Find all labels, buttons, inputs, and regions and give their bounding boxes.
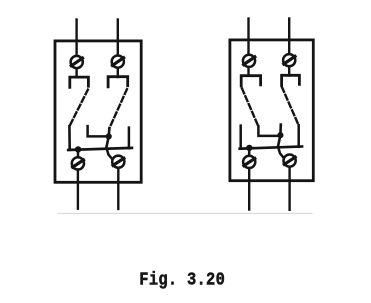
fixed contact top-left S1	[70, 77, 89, 87]
stub to bottom-left terminal S2	[248, 148, 251, 156]
fixed contact top-right S1	[108, 77, 128, 87]
blade 1 lower solid S1	[68, 126, 71, 150]
terminal screw top-right S1	[112, 56, 124, 68]
stub to bottom-right terminal S1	[107, 148, 113, 159]
blade 2 lower solid S1	[106, 128, 109, 148]
common contact bracket S1	[88, 126, 109, 136]
terminal screw bottom-left S2	[243, 156, 255, 168]
wire top-left S1	[75, 20, 77, 78]
wire top-right S2	[288, 19, 290, 76]
terminal screw top-left S2	[243, 55, 255, 67]
enclosure box S1	[55, 41, 141, 182]
common contact bracket S2	[258, 126, 280, 136]
terminal screw top-right S2	[283, 54, 295, 66]
fixed contact top-left S2	[241, 76, 260, 86]
wire bottom-right S2	[288, 167, 290, 210]
stub to bottom-right terminal S2	[278, 147, 284, 158]
bar right post S1	[128, 128, 131, 149]
blade 2 S2 (dashed, \ position)	[282, 87, 299, 125]
bar left post S2	[239, 126, 242, 148]
enclosure box S2	[230, 40, 313, 181]
node on bar S1	[75, 146, 81, 152]
terminal screw bottom-right S1	[112, 156, 124, 168]
caption Fig. 3.20	[139, 268, 225, 290]
terminal screw bottom-left S1	[72, 157, 84, 169]
wire bottom-left S1	[77, 170, 79, 209]
common bar S1	[68, 148, 132, 150]
wire top-right S1	[117, 20, 119, 78]
terminal screw bottom-right S2	[284, 155, 296, 167]
blade 2 S1 (dashed, / position)	[109, 89, 127, 128]
wire top-left S2	[247, 19, 249, 76]
node on bracket S2	[277, 132, 283, 138]
wire bottom-right S1	[117, 168, 119, 209]
terminal screw top-left S1	[71, 56, 83, 68]
blade 1 S1 (dashed, / position)	[69, 90, 88, 127]
scan artifact line	[58, 213, 312, 215]
node on bar S2	[246, 145, 252, 151]
stub to bottom-left terminal S1	[77, 149, 80, 157]
bar right post S2	[297, 125, 300, 147]
fixed contact top-right S2	[282, 75, 300, 85]
common contact post S2	[278, 125, 281, 147]
blade 1 S2 (dashed, \ position)	[242, 89, 258, 127]
common bar S2	[240, 147, 302, 149]
node on bracket S1	[106, 133, 112, 139]
wire bottom-left S2	[248, 168, 250, 209]
